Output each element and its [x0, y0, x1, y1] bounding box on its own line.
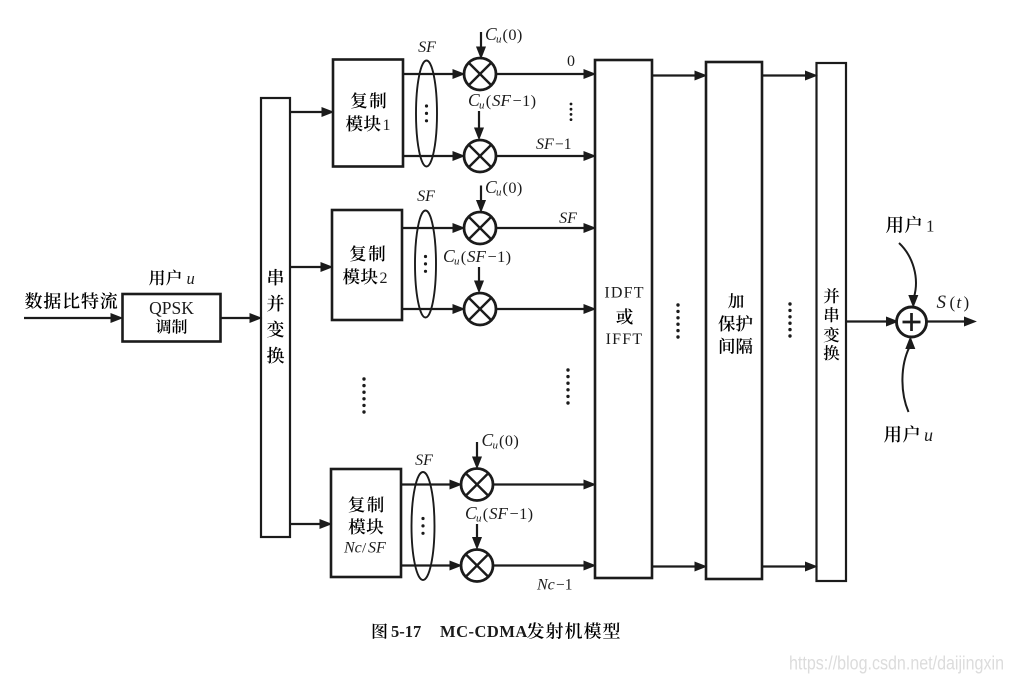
wire P/S to adder — [846, 317, 898, 326]
svg-text:−1): −1) — [510, 504, 534, 523]
block IDFT/IFFT — [595, 60, 652, 578]
wire module out to multiplier row2 — [402, 224, 464, 233]
multiplier row5 — [461, 550, 493, 582]
label 串并变换 vertical — [267, 269, 284, 364]
wire guard to P/S bottom — [762, 562, 817, 571]
svg-text:u: u — [454, 256, 460, 268]
label SF group3 — [415, 452, 433, 469]
svg-text:(: ( — [486, 91, 491, 110]
svg-text:): ) — [964, 293, 970, 312]
label 用户u bottom — [884, 425, 933, 445]
wire S/P to copy-module-1 — [290, 108, 333, 117]
label SF on row2 wire — [559, 210, 577, 227]
svg-text:u: u — [476, 513, 482, 525]
multiplier row1 — [464, 140, 496, 172]
wire multiplier row0 to IDFT — [496, 70, 595, 79]
curve user-u into adder — [902, 338, 914, 413]
label Cu(SF-1) group3 with arrow — [465, 503, 533, 549]
block copy module Nc/SF 复制模块 — [331, 469, 401, 577]
label 复制 模块 Nc/SF — [343, 496, 386, 556]
ellipse bundle SF group1 — [416, 61, 437, 167]
svg-text:IDFT: IDFT — [604, 285, 644, 302]
label S(t) — [937, 292, 970, 313]
svg-text:SF: SF — [536, 136, 554, 153]
label 调制 — [156, 319, 187, 334]
multiplier row3 — [464, 293, 496, 325]
wire adder output S(t) — [927, 317, 976, 326]
svg-text:u: u — [479, 100, 485, 112]
dots between guard and P/S — [788, 302, 791, 337]
label 复制 模块1 — [346, 92, 391, 134]
wire multiplier row5 to IDFT — [493, 561, 595, 570]
wire module out to multiplier row4 — [401, 480, 461, 489]
label 加 保护 间隔 — [718, 293, 752, 354]
svg-text:1: 1 — [383, 117, 391, 134]
wire multiplier row1 to IDFT — [496, 152, 595, 161]
svg-text:5-17: 5-17 — [391, 622, 421, 641]
svg-text:SF: SF — [467, 247, 487, 266]
svg-text:(: ( — [483, 504, 488, 523]
svg-text:1: 1 — [926, 217, 935, 236]
svg-text:−1: −1 — [555, 136, 572, 153]
dots between IDFT and guard — [676, 303, 679, 338]
svg-text:−1: −1 — [556, 577, 573, 594]
svg-text:SF: SF — [489, 504, 509, 523]
label Cu(0) group2 with arrow — [477, 177, 523, 212]
label 复制 模块2 — [343, 245, 388, 287]
wire module out to multiplier row3 — [402, 305, 464, 314]
block serial-to-parallel converter 串并变换 — [261, 98, 290, 537]
svg-text:(0): (0) — [503, 178, 523, 197]
wire S/P to copy-module-Nc/SF — [290, 520, 331, 529]
block copy module 2 复制模块2 — [332, 210, 402, 320]
svg-text:u: u — [187, 269, 195, 288]
caption 图5-17 MC-CDMA 发射机模型 — [373, 622, 620, 641]
svg-text:IFFT: IFFT — [606, 331, 644, 348]
svg-text:Nc: Nc — [343, 540, 362, 557]
wire guard to P/S top — [762, 71, 817, 80]
wire module out to multiplier row0 — [403, 70, 464, 79]
label 并串变换 vertical — [824, 288, 840, 360]
label IDFT 或 IFFT — [604, 285, 644, 349]
svg-text:MC-CDMA: MC-CDMA — [440, 622, 528, 641]
svg-text:SF: SF — [417, 188, 435, 205]
svg-text:(: ( — [950, 293, 956, 312]
adder circle with plus — [897, 307, 927, 337]
wire module out to multiplier row1 — [403, 152, 464, 161]
svg-text:−1): −1) — [513, 91, 537, 110]
svg-text:u: u — [496, 187, 502, 199]
multiplier row2 — [464, 212, 496, 244]
svg-text:https://blog.csdn.net/daijingx: https://blog.csdn.net/daijingxin — [789, 653, 1004, 675]
wire input arrow into QPSK — [24, 314, 122, 323]
svg-text:−1): −1) — [488, 247, 512, 266]
wire module out to multiplier row5 — [401, 561, 461, 570]
dots between row0 and row1 wires — [570, 103, 573, 121]
wire QPSK to serial-parallel — [221, 314, 262, 323]
block copy module 1 复制模块1 — [333, 60, 403, 167]
svg-text:(: ( — [461, 247, 466, 266]
multiplier row0 — [464, 58, 496, 90]
svg-text:2: 2 — [380, 270, 388, 287]
wire IDFT to guard bottom — [652, 562, 706, 571]
label SF group1 — [418, 39, 436, 56]
wire multiplier row4 to IDFT — [493, 480, 595, 489]
block parallel-to-serial 并串变换 — [817, 63, 847, 581]
label Nc-1 on row5 wire — [536, 577, 573, 594]
label SF-1 on row1 wire — [536, 136, 572, 153]
dots left of IDFT between row3 and row4 — [566, 368, 569, 404]
watermark csdn — [789, 653, 1004, 675]
wire IDFT to guard top — [652, 71, 706, 80]
ellipse bundle SF group3 — [412, 472, 435, 580]
wire multiplier row3 to IDFT — [496, 305, 595, 314]
svg-text:u: u — [924, 425, 933, 445]
label 用户1 top — [886, 216, 934, 236]
label Cu(0) group1 with arrow — [477, 24, 523, 58]
svg-text:(0): (0) — [503, 25, 523, 44]
svg-text:u: u — [496, 34, 502, 46]
label 用户u above QPSK — [149, 269, 195, 288]
label Cu(0) group3 with arrow — [473, 430, 519, 468]
block guard interval 加保护间隔 — [706, 62, 762, 579]
wire multiplier row2 to IDFT — [496, 224, 595, 233]
svg-text:SF: SF — [368, 540, 386, 557]
label Cu(SF-1) group1 with arrow — [468, 90, 536, 139]
svg-text:SF: SF — [415, 452, 433, 469]
svg-text:SF: SF — [418, 39, 436, 56]
dots between module2 and moduleNc — [362, 377, 365, 413]
svg-text:(0): (0) — [499, 431, 519, 450]
svg-text:u: u — [493, 440, 499, 452]
svg-text:QPSK: QPSK — [149, 298, 194, 318]
svg-text:Nc: Nc — [536, 577, 555, 594]
curve user1 into adder — [899, 243, 918, 307]
multiplier row4 — [461, 469, 493, 501]
label 0 on row0 wire — [567, 53, 575, 70]
svg-text:0: 0 — [567, 53, 575, 70]
svg-text:SF: SF — [559, 210, 577, 227]
label QPSK — [149, 298, 194, 318]
ellipse bundle SF group2 — [415, 211, 436, 318]
label data-bit-stream 数据比特流 — [25, 292, 117, 309]
svg-text:S: S — [937, 292, 947, 313]
block QPSK modulator box — [123, 294, 221, 342]
wire S/P to copy-module-2 — [290, 263, 332, 272]
label SF group2 — [417, 188, 435, 205]
label Cu(SF-1) group2 with arrow — [443, 246, 511, 292]
svg-text:SF: SF — [492, 91, 512, 110]
